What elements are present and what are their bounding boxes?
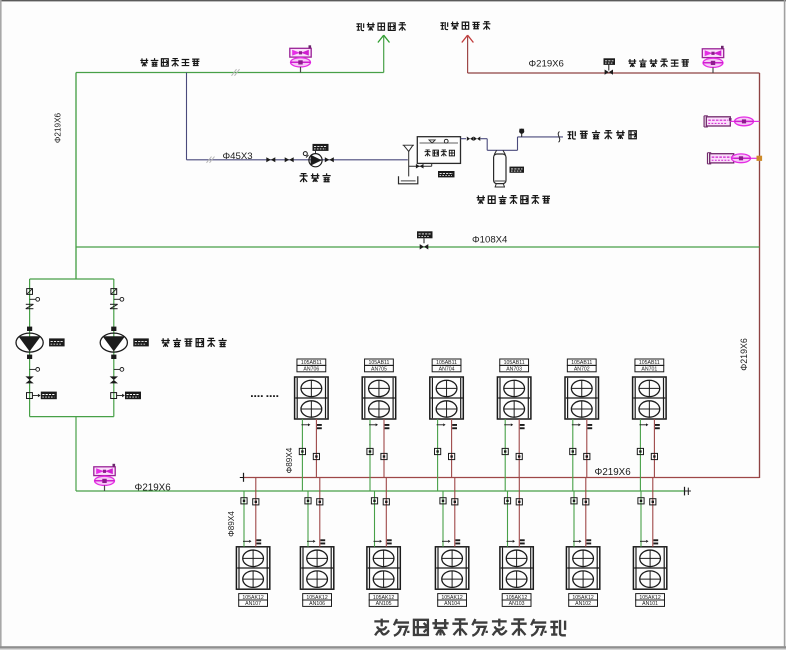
check symbols above unit AN102	[573, 540, 579, 542]
wire: red pipe from unit AN705	[383, 419, 385, 478]
valve: magenta butterfly at green header left	[94, 467, 115, 476]
ellipsis: more units	[251, 395, 253, 397]
valve on red pipe of AN101	[650, 499, 656, 505]
wire: green connecting line Φ108X4	[76, 246, 760, 248]
valve on green pipe of AN106	[305, 498, 311, 504]
wire: red pipe from unit AN702	[586, 419, 588, 478]
check symbols under unit AN704	[437, 424, 444, 426]
wire: red supply main vertical at right	[759, 73, 761, 478]
svg-text:105AK12: 105AK12	[572, 595, 593, 601]
valve on red pipe of AN704	[449, 453, 455, 459]
valve on red pipe of AN705	[381, 453, 387, 459]
gauge: pressure tap branch 1 bottom	[30, 368, 36, 370]
valve on red pipe of AN106	[317, 499, 323, 505]
wire: red pipe to unit AN105	[385, 478, 387, 547]
svg-text:Φ219X6: Φ219X6	[595, 467, 632, 478]
check symbols above unit AN105	[374, 540, 380, 542]
valve on green pipe of AN103	[504, 498, 510, 504]
wire: pump branch 1 vertical	[29, 279, 31, 417]
wire: green return main vertical drop at left	[75, 73, 77, 280]
svg-text:AN705: AN705	[371, 367, 387, 373]
wire: tank outlet to softener	[461, 138, 467, 140]
svg-text:105AB11: 105AB11	[368, 360, 389, 366]
label 补水泵	[300, 173, 308, 182]
pump: circulation pump P2 供暖循环水泵	[100, 333, 127, 352]
wire: red header to heat pumps Φ219X6	[244, 477, 760, 479]
valve on green pipe of AN102	[571, 498, 577, 504]
tag for pump P1	[49, 338, 65, 346]
wire: funnel drain stem	[408, 151, 410, 176]
funnel: overflow funnel	[404, 145, 413, 151]
pipe break squiggle	[558, 132, 560, 143]
heat pump unit D2 lower row 105AK12 AN106	[300, 547, 333, 589]
wire: pump loop header top	[30, 278, 114, 280]
wire: green pipe to unit AN107	[243, 491, 245, 547]
svg-text:AN702: AN702	[574, 367, 590, 373]
wire: green pipe from unit AN703	[504, 419, 506, 491]
valve: magenta pair upper on right main	[706, 117, 730, 126]
tag for pump P2	[133, 338, 149, 346]
wire: green header to heat pumps Φ219X6	[76, 490, 685, 492]
svg-text:105AB11: 105AB11	[301, 360, 322, 366]
svg-text:105AB11: 105AB11	[571, 360, 592, 366]
label 软化水箱	[425, 150, 431, 157]
wire: red pipe to unit AN102	[585, 478, 587, 547]
wire: red pipe to unit AN106	[319, 478, 321, 547]
heat pump unit U4 upper row 105AB11 AN703	[497, 377, 531, 419]
svg-text:AN704: AN704	[439, 367, 455, 373]
svg-text:105AB11: 105AB11	[436, 360, 457, 366]
instrument tag above make-up pump	[313, 144, 329, 151]
label 供暖循环水泵	[161, 338, 170, 347]
check symbols above unit AN101	[640, 540, 646, 542]
instrument tag on red main	[604, 58, 616, 65]
float valve on tank	[444, 139, 448, 143]
valve on red pipe of AN105	[383, 499, 389, 505]
svg-text:Φ219X6: Φ219X6	[529, 59, 564, 70]
drain valve + tag branch 1	[27, 393, 33, 399]
heat pump unit D6 lower row 105AK12 AN102	[566, 547, 599, 589]
valve V on make-up line 2	[285, 157, 290, 162]
wire: line to drainage specialty	[518, 136, 564, 138]
heat pump unit U5 upper row 105AB11 AN702	[565, 377, 599, 419]
flange above pump 1	[27, 327, 32, 331]
drain valve + tag branch 2	[111, 393, 117, 399]
label 接给排水专业	[568, 131, 576, 139]
valve on red pipe of AN104	[452, 499, 458, 505]
svg-text:AN703: AN703	[506, 367, 522, 373]
svg-text:Φ219X6: Φ219X6	[54, 112, 63, 143]
vessel: automatic softener 全自动软化水器	[494, 150, 505, 154]
gauge on drainage line	[521, 133, 523, 137]
svg-text:AN105: AN105	[376, 601, 392, 607]
wire: red pipe to unit AN101	[652, 478, 654, 547]
flex connector branch 2 top	[110, 303, 118, 305]
check symbols under unit AN706	[301, 424, 308, 426]
wire: green pipe to unit AN103	[507, 491, 509, 547]
svg-text:105AB11: 105AB11	[639, 360, 660, 366]
valve on red pipe of AN702	[584, 453, 590, 459]
drain tag branch 2	[125, 392, 141, 400]
wire: green heating-return main horizontal 供暖回水主线	[76, 72, 384, 74]
label 供暖供水主线	[628, 59, 636, 67]
pipe break mark on blue line	[207, 157, 212, 163]
valve on green pipe of AN703	[502, 448, 508, 454]
gauge: pressure tap branch 2 bottom	[114, 368, 120, 370]
valve: magenta pair lower on right main with orange cap	[710, 154, 734, 163]
wire: red pipe from unit AN701	[653, 419, 655, 478]
gauge on make-up pump	[306, 155, 309, 158]
svg-text:Φ89X4: Φ89X4	[285, 447, 294, 473]
valve on red pipe of AN102	[583, 499, 589, 505]
flange below pump 2	[111, 355, 116, 359]
svg-text:Φ219X6: Φ219X6	[135, 482, 172, 493]
svg-text:105AK12: 105AK12	[242, 595, 263, 601]
title 超低温空气源热泵阵列	[374, 619, 389, 636]
valve on green pipe of AN701	[637, 448, 643, 454]
wire: green pipe to unit AN104	[442, 491, 444, 547]
label 全自动软化水器	[477, 195, 485, 203]
flange above pump 2	[111, 327, 116, 331]
wire: red heating-supply main horizontal 供暖供水主线	[468, 72, 760, 74]
pipe break mark on green main	[232, 69, 237, 76]
valve: butterfly branch 1 bottom	[25, 376, 33, 380]
wire: red supply riser to user 接用户给水 branch	[467, 37, 469, 74]
end cap of red header	[243, 473, 245, 482]
svg-text:AN101: AN101	[642, 601, 658, 607]
valve on green pipe of AN101	[638, 498, 644, 504]
valve: butterfly branch 2 bottom	[110, 376, 118, 380]
heat pump unit D4 lower row 105AK12 AN104	[435, 547, 468, 589]
wire: green pipe from unit AN705	[369, 419, 371, 491]
drain tag branch 1	[41, 392, 57, 400]
arrow: to user supply water	[462, 35, 468, 42]
wire: outlet jog down	[480, 138, 487, 140]
wire: green pipe to unit AN102	[573, 491, 575, 547]
instrument tag on Φ108X4 line	[417, 231, 433, 238]
valve: magenta butterfly on red main	[702, 49, 723, 58]
wire: blue make-up branch vertical from green main	[186, 73, 188, 160]
label 接用户给水	[440, 22, 448, 30]
flange below pump 1	[27, 355, 32, 359]
svg-text:AN104: AN104	[444, 601, 460, 607]
wire: green pipe from unit AN702	[572, 419, 574, 491]
valve on red pipe of AN701	[651, 453, 657, 459]
svg-text:AN103: AN103	[509, 601, 525, 607]
valve on red pipe of AN706	[313, 453, 319, 459]
valve V on make-up line 1	[266, 157, 271, 162]
valve on green pipe of AN104	[440, 498, 446, 504]
wire: green pipe from unit AN701	[639, 419, 641, 491]
wire: blue make-up horizontal line Φ45X3	[187, 159, 408, 161]
heat pump unit U6 upper row 105AB11 AN701	[633, 377, 667, 419]
svg-text:Φ89X4: Φ89X4	[227, 511, 236, 537]
valve on green pipe of AN105	[371, 498, 377, 504]
heat pump unit U3 upper row 105AB11 AN704	[430, 377, 464, 419]
pump: circulation pump P1 供暖循环水泵	[16, 333, 43, 352]
heat pump unit D3 lower row 105AK12 AN105	[367, 547, 400, 589]
svg-text:105AK12: 105AK12	[441, 595, 462, 601]
valve on red pipe of AN703	[516, 453, 522, 459]
valve: shutoff square on branch 1 top	[27, 289, 33, 295]
svg-text:AN107: AN107	[245, 601, 261, 607]
valve: magenta butterfly on green main	[290, 48, 311, 57]
svg-text:AN706: AN706	[303, 367, 319, 373]
wire: green pipe to unit AN106	[307, 491, 309, 547]
arrow: to user return water	[378, 35, 384, 42]
valve pair on tank outlet	[467, 137, 470, 141]
check symbols under unit AN702	[572, 424, 579, 426]
svg-text:Φ108X4: Φ108X4	[472, 234, 508, 245]
valve on green pipe of AN705	[367, 448, 373, 454]
svg-text:105AK12: 105AK12	[373, 595, 394, 601]
wire: green pipe from unit AN704	[437, 419, 439, 491]
wire: tank fill line with valve	[409, 165, 432, 167]
tag under tank	[438, 171, 455, 177]
gauge: pressure tap branch 1 top	[30, 298, 36, 300]
wire: red pipe from unit AN703	[518, 419, 520, 478]
check symbols under unit AN703	[504, 424, 511, 426]
drain pan	[399, 176, 418, 184]
svg-text:105AK12: 105AK12	[306, 595, 327, 601]
svg-text:105AK12: 105AK12	[639, 595, 660, 601]
svg-text:AN102: AN102	[575, 601, 591, 607]
end cap of green header	[684, 487, 686, 496]
heat pump unit D5 lower row 105AK12 AN103	[500, 547, 533, 589]
wire: red pipe from unit AN706	[315, 419, 317, 478]
heat pump unit U1 upper row 105AB11 AN706	[295, 377, 329, 419]
wire: red pipe to unit AN107	[255, 478, 257, 547]
check symbols above unit AN103	[507, 540, 513, 542]
valve on green pipe of AN704	[435, 448, 441, 454]
tank: softening water tank 软化水箱	[417, 137, 460, 164]
valve on green pipe of AN706	[299, 448, 305, 454]
svg-text:105AK12: 105AK12	[506, 595, 527, 601]
pump: make-up pump 补水泵	[309, 154, 322, 167]
check symbols above unit AN106	[307, 540, 313, 542]
heat pump unit D7 lower row 105AK12 AN101	[633, 547, 666, 589]
check symbols above unit AN104	[442, 540, 448, 542]
check symbols under unit AN705	[369, 424, 376, 426]
wire: green return riser to user 接用户回水 branch	[383, 37, 385, 73]
svg-text:AN106: AN106	[309, 601, 325, 607]
check symbols under unit AN701	[639, 424, 646, 426]
valve: small black valve under tag	[608, 65, 610, 71]
wire: pump loop header bottom	[30, 416, 114, 418]
wire: red pipe to unit AN104	[454, 478, 456, 547]
heat pump unit U2 upper row 105AB11 AN705	[362, 377, 396, 419]
gauge: pressure tap branch 2 top	[114, 298, 120, 300]
svg-text:Φ219X6: Φ219X6	[739, 338, 749, 371]
valve on red pipe of AN107	[253, 499, 259, 505]
svg-text:Φ45X3: Φ45X3	[223, 151, 253, 162]
wire: red pipe from unit AN704	[451, 419, 453, 478]
wire: green pipe to unit AN105	[374, 491, 376, 547]
wire: green pipe to unit AN101	[640, 491, 642, 547]
tag for softener	[510, 167, 525, 173]
valve on green pipe of AN702	[570, 448, 576, 454]
water level line in tank	[420, 142, 459, 144]
valve V on make-up line 3	[325, 157, 330, 162]
valve on red pipe of AN103	[516, 499, 522, 505]
wire: red pipe to unit AN103	[518, 478, 520, 547]
flex connector branch 1 top	[26, 303, 34, 305]
svg-text:AN701: AN701	[641, 367, 657, 373]
label 接用户回水	[356, 23, 364, 31]
valve on green pipe of AN107	[241, 498, 247, 504]
heat pump unit D1 lower row 105AK12 AN107	[236, 547, 269, 589]
valve on Φ108X4 line	[423, 238, 425, 243]
wire: pump branch 2 vertical	[113, 279, 115, 417]
wire: green pipe from unit AN706	[301, 419, 303, 491]
wire: green main below pump loop	[75, 417, 77, 491]
check symbols above unit AN107	[243, 540, 249, 542]
svg-text:105AB11: 105AB11	[504, 360, 525, 366]
valve: shutoff square on branch 2 top	[111, 289, 117, 295]
label 供暖回水主线	[140, 58, 148, 66]
